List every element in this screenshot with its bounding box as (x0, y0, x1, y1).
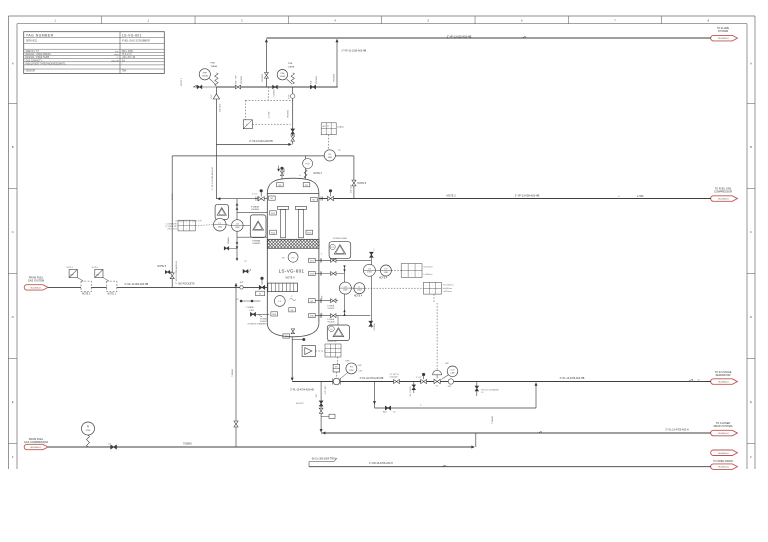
svg-text:VENDOR: VENDOR (26, 71, 36, 73)
svg-text:2"-VF-13-1338-A03-HB: 2"-VF-13-1338-A03-HB (175, 261, 178, 284)
svg-text:LT-1380A/B SET @ 100mm TYP: LT-1380A/B SET @ 100mm TYP (175, 219, 203, 222)
svg-text:LS-VG-601: LS-VG-601 (279, 269, 305, 274)
svg-text:LS-VG-601: LS-VG-601 (122, 33, 142, 37)
svg-text:1/2" SET: 1/2" SET (325, 385, 327, 394)
svg-text:660 x 2450: 660 x 2450 (122, 51, 134, 53)
svg-text:2"-VF-13-1330-A03-HB: 2"-VF-13-1330-A03-HB (342, 50, 367, 53)
svg-text:36-1309-01: 36-1309-01 (718, 38, 729, 40)
svg-text:NOTE 3: NOTE 3 (314, 173, 323, 175)
svg-text:LT-1380B SET: LT-1380B SET (166, 226, 179, 228)
svg-text:75.6 N / 5: 75.6 N / 5 (122, 54, 133, 56)
svg-text:1/2": 1/2" (244, 261, 247, 263)
svg-text:NOTE 5: NOTE 5 (358, 182, 367, 185)
svg-text:DESIGN / OPER TEMP.: DESIGN / OPER TEMP. (26, 57, 50, 59)
svg-text:VG0603: VG0603 (262, 73, 264, 82)
svg-text:3/4": 3/4" (322, 312, 324, 316)
svg-text:TUBING: TUBING (232, 368, 234, 377)
svg-text:F: F (12, 455, 14, 459)
svg-text:CP=100mm: CP=100mm (443, 284, 454, 286)
svg-text:38-1808-01: 38-1808-01 (30, 447, 41, 449)
svg-text:NOTE 3: NOTE 3 (446, 195, 456, 198)
svg-text:GAS COMPRESSOR: GAS COMPRESSOR (24, 441, 48, 444)
svg-text:LG: LG (368, 269, 371, 271)
svg-text:LT-1380A SET: LT-1380A SET (166, 222, 178, 225)
svg-text:NOTE 4: NOTE 4 (379, 278, 388, 280)
svg-text:H=750mm: H=750mm (424, 266, 434, 268)
svg-text:0.5bar: 0.5bar (338, 126, 344, 129)
svg-text:36-2808-01: 36-2808-01 (718, 382, 729, 384)
svg-text:56-CL-300-300F TRAY: 56-CL-300-300F TRAY (312, 458, 337, 461)
svg-text:LO: LO (393, 412, 396, 414)
svg-text:DESIGN / OPER.PRESS.: DESIGN / OPER.PRESS. (26, 54, 52, 56)
svg-text:PSE: PSE (280, 73, 285, 75)
svg-text:INSULATION TYPE/THICKNESS/MAT': INSULATION TYPE/THICKNESS/MAT'L (26, 63, 67, 66)
svg-text:36-2306-01: 36-2306-01 (718, 199, 729, 201)
svg-text:3/4" TYP: 3/4" TYP (236, 75, 238, 84)
svg-text:PIPE: PIPE (250, 310, 255, 312)
svg-text:3/4"x1/2": 3/4"x1/2" (296, 403, 305, 405)
svg-text:1/4": 1/4" (240, 282, 244, 284)
svg-text:SEPARATOR: SEPARATOR (715, 374, 730, 377)
svg-text:LG: LG (385, 269, 388, 271)
svg-text:LCV: LCV (451, 370, 456, 372)
svg-text:COMPRESSOR: COMPRESSOR (714, 190, 732, 193)
svg-text:F1380B: F1380B (252, 240, 260, 242)
svg-text:FUEL GAS SCRUBBER: FUEL GAS SCRUBBER (122, 39, 150, 43)
svg-text:HE: HE (71, 274, 75, 276)
svg-text:3/4"x1/2"-4705A03M: 3/4"x1/2"-4705A03M (481, 388, 499, 391)
svg-text:2"-GL-13-4705-A03-H: 2"-GL-13-4705-A03-H (665, 428, 689, 431)
svg-text:A: A (12, 62, 14, 66)
svg-text:35-1309-01: 35-1309-01 (30, 287, 41, 289)
svg-text:PSE: PSE (288, 63, 293, 65)
svg-text:NOTE 2: NOTE 2 (82, 294, 91, 296)
svg-text:3/4"x1/2": 3/4"x1/2" (220, 103, 222, 112)
svg-text:4.5barg: 4.5barg (390, 376, 396, 378)
svg-text:B: B (12, 145, 14, 149)
svg-text:2": 2" (321, 254, 323, 256)
svg-text:2"x3": 2"x3" (288, 94, 290, 99)
svg-text:GAS CAPACITY: GAS CAPACITY (26, 59, 43, 62)
svg-text:VG0608: VG0608 (328, 322, 335, 324)
svg-text:1380: 1380 (450, 373, 454, 375)
svg-text:1/2": 1/2" (108, 443, 112, 445)
svg-text:2"-VF-13-030-A03-HB: 2"-VF-13-030-A03-HB (447, 35, 472, 38)
svg-text:VG0606: VG0606 (251, 209, 260, 211)
svg-text:CSC: CSC (358, 371, 363, 373)
svg-text:1"STAND: 1"STAND (246, 306, 255, 309)
svg-text:mm: mm (115, 51, 119, 53)
svg-text:DRAIN SYSTEM: DRAIN SYSTEM (714, 425, 733, 428)
svg-text:TUBING: TUBING (492, 415, 494, 424)
svg-text:18°: 18° (282, 257, 285, 259)
svg-text:TUBING: TUBING (183, 443, 192, 445)
svg-text:VG0604: VG0604 (333, 73, 335, 82)
svg-text:VG0609: VG0609 (374, 324, 376, 331)
svg-text:DRAIN: DRAIN (227, 237, 230, 244)
svg-text:SYSTEM: SYSTEM (718, 30, 728, 33)
svg-text:1380A: 1380A (211, 65, 218, 68)
svg-text:F: F (750, 455, 752, 459)
svg-text:VG0607: VG0607 (252, 243, 261, 245)
svg-text:1/2": 1/2" (316, 393, 318, 397)
svg-text:PCV: PCV (306, 164, 311, 166)
svg-text:TO OPEN DRAIN: TO OPEN DRAIN (713, 460, 733, 463)
svg-text:L=450mm: L=450mm (443, 291, 452, 293)
svg-text:VG0607: VG0607 (328, 308, 335, 310)
svg-text:1/2": 1/2" (338, 150, 342, 152)
svg-text:F1380B: F1380B (251, 206, 259, 208)
svg-text:2"-VF-13-1340-A03-HB: 2"-VF-13-1340-A03-HB (211, 167, 214, 190)
svg-text:NOTE 2: NOTE 2 (67, 267, 74, 269)
svg-text:1380B: 1380B (280, 76, 286, 78)
svg-text:1380B: 1380B (288, 66, 295, 68)
svg-text:H=600mm: H=600mm (443, 288, 453, 290)
svg-text:NOTE 1: NOTE 1 (92, 267, 99, 269)
svg-text:1380A: 1380A (202, 75, 208, 78)
svg-text:2"-OD-16-4706-A33-H: 2"-OD-16-4706-A33-H (369, 462, 393, 465)
svg-text:2"-GF-14-004-A03-HB: 2"-GF-14-004-A03-HB (125, 283, 149, 286)
svg-text:HE: HE (96, 274, 100, 276)
svg-text:PI: PI (87, 427, 90, 429)
svg-text:GAS SYSTEM: GAS SYSTEM (28, 279, 44, 282)
svg-text:2"x1/2": 2"x1/2" (416, 377, 422, 379)
svg-text:36-6805-01: 36-6805-01 (718, 433, 729, 435)
svg-text:36-0605-01: 36-0605-01 (718, 467, 729, 469)
svg-text:VG0601: VG0601 (241, 75, 243, 84)
svg-text:NOTE 1: NOTE 1 (181, 77, 183, 86)
svg-text:∠: ∠ (618, 195, 620, 198)
svg-text:SIZE ID x T/T: SIZE ID x T/T (26, 51, 40, 53)
svg-text:-29 to 60 / 38: -29 to 60 / 38 (122, 56, 136, 59)
svg-text:E: E (750, 400, 752, 404)
svg-text:L=450mm: L=450mm (424, 274, 433, 276)
svg-text:NOTE 5: NOTE 5 (157, 265, 166, 268)
svg-text:mmscfd: mmscfd (111, 60, 119, 62)
svg-text:HH=900mm: HH=900mm (168, 229, 178, 231)
svg-text:VG0602: VG0602 (316, 75, 318, 84)
svg-text:1": 1" (291, 296, 293, 298)
svg-text:TBA: TBA (122, 70, 127, 73)
svg-text:(VORTEX STRAINER): (VORTEX STRAINER) (248, 323, 267, 326)
svg-text:3/4": 3/4" (311, 80, 313, 84)
svg-text:1": 1" (300, 174, 302, 176)
svg-text:E: E (12, 400, 14, 404)
svg-text:PSE: PSE (211, 63, 216, 65)
svg-text:LG: LG (236, 224, 239, 226)
svg-text:36-6606-01: 36-6606-01 (718, 453, 729, 455)
svg-text:A: A (750, 62, 752, 66)
svg-text:VG0605: VG0605 (288, 109, 290, 118)
svg-text:SERVICE: SERVICE (26, 39, 38, 43)
svg-text:2"-VF-13-008-A03-HB: 2"-VF-13-008-A03-HB (515, 195, 540, 198)
svg-text:NOTE 5: NOTE 5 (172, 193, 174, 200)
svg-text:VG0602: VG0602 (274, 90, 276, 97)
svg-text:1": 1" (374, 248, 376, 250)
svg-text:2"-PL-13-4704-A03-HB: 2"-PL-13-4704-A03-HB (290, 388, 314, 391)
svg-text:3/4" VG0610: 3/4" VG0610 (410, 386, 412, 396)
svg-text:NOTE 4: NOTE 4 (285, 277, 295, 280)
svg-text:PSE: PSE (203, 73, 208, 75)
svg-text:3/4": 3/4" (322, 295, 324, 299)
svg-text:VG1380 SET: VG1380 SET (327, 341, 338, 343)
svg-text:3/4"x1/2": 3/4"x1/2" (350, 184, 352, 193)
svg-text:F1380B VG0605: F1380B VG0605 (333, 238, 347, 240)
svg-text:2"-PL-13-4705-A03-HB: 2"-PL-13-4705-A03-HB (560, 377, 585, 380)
svg-text:NO POCKETS: NO POCKETS (178, 282, 195, 285)
svg-text:2"x3": 2"x3" (211, 94, 213, 99)
svg-text:NOTE 4: NOTE 4 (354, 295, 363, 297)
svg-text:B: B (750, 145, 752, 149)
svg-text:∠ 500: ∠ 500 (637, 195, 644, 198)
svg-text:FG: FG (350, 367, 353, 369)
svg-text:2"x1.5": 2"x1.5" (252, 194, 258, 196)
svg-text:NOTE 1: NOTE 1 (108, 294, 117, 296)
svg-text:1"x3/4": 1"x3/4" (284, 168, 286, 174)
svg-text:2"-VF-13-040-A03-HB: 2"-VF-13-040-A03-HB (249, 140, 273, 143)
svg-text:1"x3/4": 1"x3/4" (269, 111, 271, 118)
svg-text:TAG NUMBER: TAG NUMBER (26, 33, 54, 37)
svg-text:2"-PL-43-4704-A03-HB: 2"-PL-43-4704-A03-HB (360, 377, 384, 380)
